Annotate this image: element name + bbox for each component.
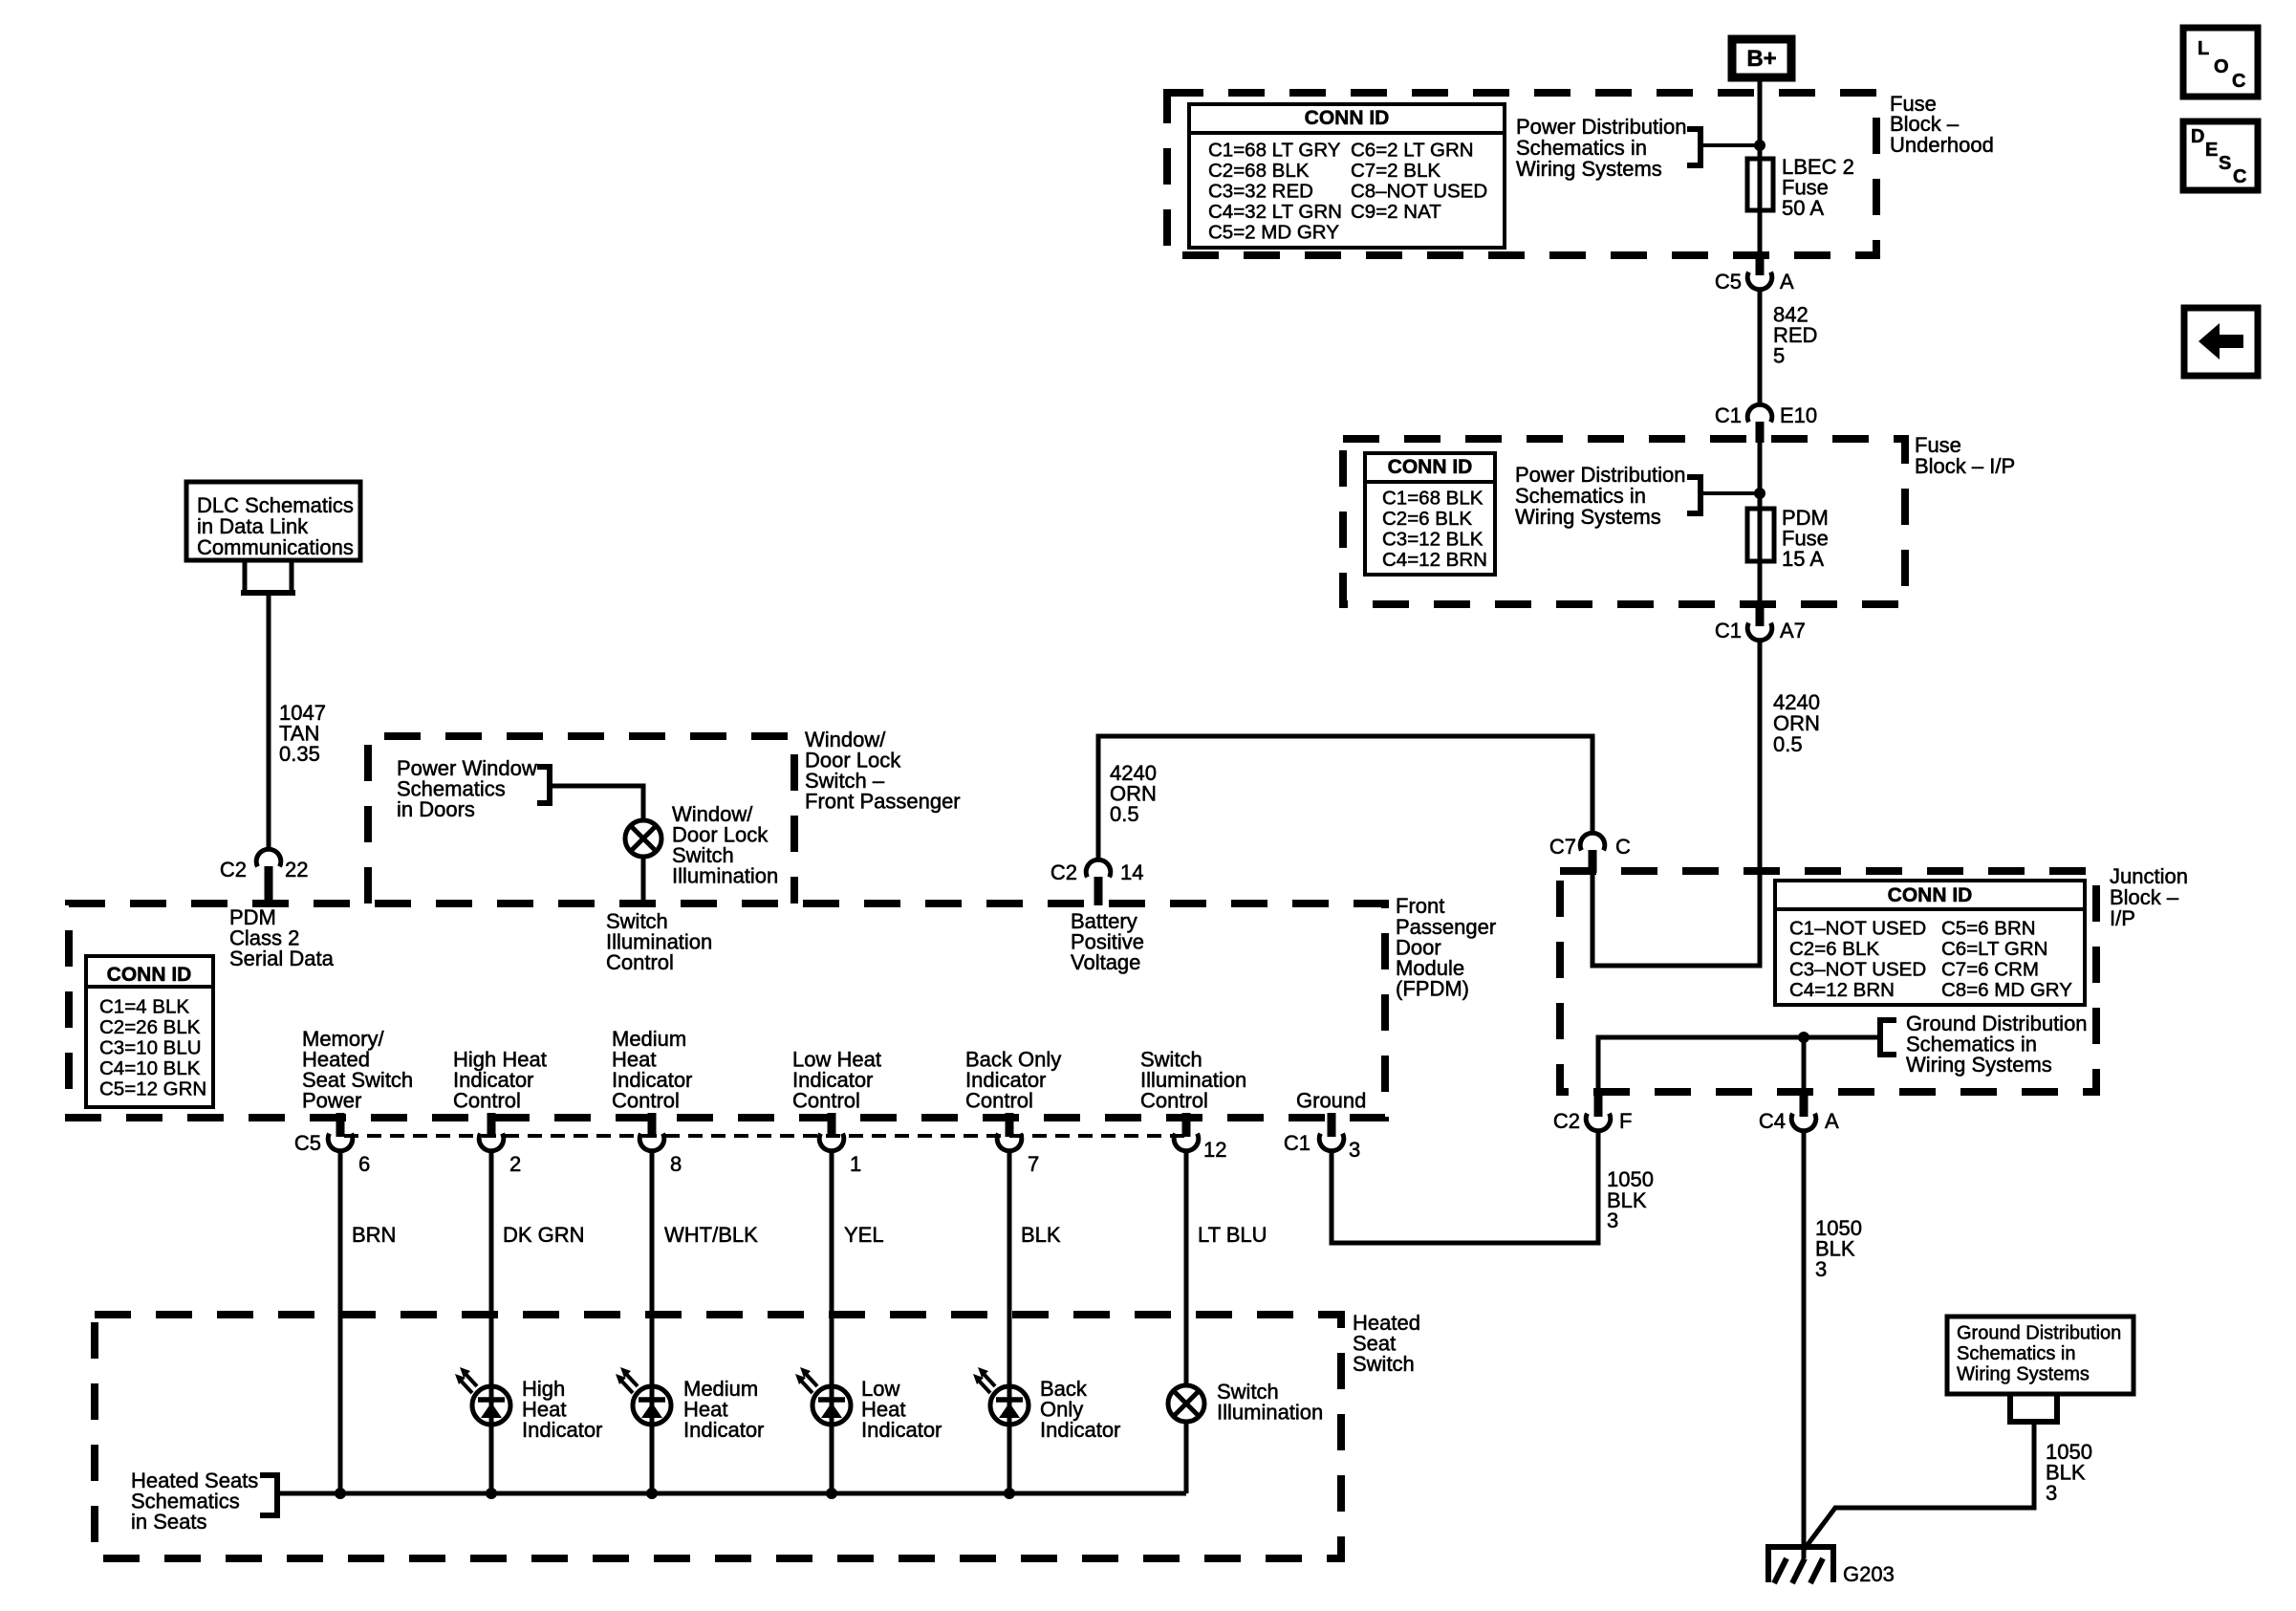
svg-text:3: 3 [1815, 1257, 1827, 1281]
heated seat switch dashed box [95, 1315, 1341, 1558]
svg-text:Front Passenger: Front Passenger [805, 790, 961, 814]
svg-text:C1: C1 [1284, 1131, 1310, 1155]
label Switch Illumination Control (pin 12) [1140, 1048, 1246, 1113]
connector id table (FPDM) [86, 956, 213, 1107]
svg-text:C2: C2 [220, 858, 247, 882]
wire LT BLU (pin 12 to switch illumination) [1186, 1150, 1267, 1493]
wire 1050 BLK 3 (C4/A to G203) [1804, 1131, 1862, 1558]
connector C5 pin A (fuse block underhood) [1715, 256, 1794, 294]
connector C1 pin E10 (fuse block I/P) [1715, 403, 1817, 443]
wire B+ to LBEC 2 fuse [1758, 81, 1763, 266]
label Ground [1296, 1089, 1366, 1113]
wire WHT/BLK (pin 8 to medium heat indicator) [652, 1150, 758, 1493]
svg-text:I/P: I/P [2110, 906, 2135, 930]
svg-text:E10: E10 [1780, 403, 1817, 427]
LED medium heat indicator [616, 1367, 764, 1442]
svg-text:C2=6 BLK: C2=6 BLK [1382, 508, 1472, 530]
svg-text:L: L [2198, 38, 2209, 59]
bracket heated seats schematics [260, 1475, 277, 1515]
wire 1050 BLK 3 (ground distribution to G203) [1804, 1422, 2092, 1550]
label Power Distribution Schematics in Wiring Systems (I/P) [1515, 463, 1686, 529]
connector id table (junction block I/P) [1775, 881, 2085, 1005]
svg-text:A7: A7 [1780, 619, 1806, 642]
lamp window/door lock switch illumination [625, 802, 778, 888]
svg-text:Indicator: Indicator [522, 1418, 602, 1442]
svg-text:Wiring Systems: Wiring Systems [1516, 157, 1662, 181]
svg-text:0.35: 0.35 [279, 742, 320, 766]
svg-text:6: 6 [358, 1152, 370, 1176]
svg-text:Wiring Systems: Wiring Systems [1515, 505, 1661, 529]
svg-text:3: 3 [1349, 1138, 1360, 1162]
label Ground Distribution Schematics in Wiring Systems (junction block) [1906, 1012, 2088, 1077]
svg-text:C8–NOT USED: C8–NOT USED [1351, 181, 1487, 203]
junction node bus x=356 [335, 1488, 346, 1499]
svg-text:Wiring Systems: Wiring Systems [1906, 1053, 2052, 1077]
wire 1050 BLK 3 (C2/F) [1607, 1167, 1654, 1232]
wire to window/door lock switch illumination lamp [550, 786, 643, 818]
LED back only indicator [973, 1367, 1120, 1442]
svg-text:Indicator: Indicator [1040, 1418, 1120, 1442]
label PDM Class 2 Serial Data [229, 905, 335, 970]
junction node bus x=1056 [1004, 1488, 1015, 1499]
svg-text:Control: Control [606, 950, 674, 974]
label Window/Door Lock Switch - Front Passenger [805, 728, 961, 814]
wire E10 to A7 through PDM fuse [1758, 443, 1763, 617]
svg-text:BRN: BRN [352, 1223, 396, 1247]
legend box LOC [2183, 28, 2258, 97]
svg-text:C9=2 NAT: C9=2 NAT [1351, 201, 1441, 223]
fuse block underhood dashed box [1167, 93, 1876, 255]
svg-text:LT BLU: LT BLU [1198, 1223, 1267, 1247]
svg-text:C7=2 BLK: C7=2 BLK [1351, 160, 1440, 182]
svg-text:C: C [2232, 71, 2245, 92]
svg-text:WHT/BLK: WHT/BLK [664, 1223, 758, 1247]
svg-text:14: 14 [1120, 860, 1143, 884]
svg-text:A: A [1825, 1109, 1839, 1133]
connector C7 pin C (junction block) [1549, 833, 1631, 873]
svg-text:C: C [1615, 835, 1631, 859]
svg-text:F: F [1619, 1109, 1632, 1133]
label Fuse Block - Underhood [1890, 92, 1994, 157]
label High Heat Indicator Control [453, 1048, 547, 1113]
svg-text:3: 3 [1607, 1208, 1618, 1232]
svg-text:C5: C5 [1715, 270, 1742, 294]
label Fuse Block - I/P [1915, 433, 2015, 478]
power symbol B+ battery feed [1732, 39, 1791, 77]
fuse PDM 15 A [1747, 506, 1829, 571]
svg-text:YEL: YEL [844, 1223, 884, 1247]
svg-text:DK GRN: DK GRN [503, 1223, 585, 1247]
wire battery feed branch to FPDM [1098, 736, 1592, 860]
ground G203 [1765, 1547, 1895, 1586]
bracket to power distribution (underhood) [1687, 129, 1760, 165]
svg-text:Communications: Communications [197, 535, 354, 559]
svg-text:2: 2 [509, 1152, 521, 1176]
front passenger door module dashed box [69, 903, 1385, 1118]
connector C1 pin A7 (fuse block I/P) [1715, 600, 1806, 642]
svg-text:22: 22 [285, 858, 308, 882]
legend box DESC [2183, 121, 2258, 190]
svg-text:Voltage: Voltage [1071, 950, 1140, 974]
svg-text:Control: Control [792, 1089, 860, 1113]
junction node ground bus [1798, 1032, 1809, 1043]
fuse block I/P dashed box [1343, 439, 1905, 604]
connector pin 1 (low heat indicator control) [819, 1113, 861, 1176]
svg-text:Illumination: Illumination [1217, 1401, 1323, 1425]
svg-text:C3–NOT USED: C3–NOT USED [1789, 959, 1926, 981]
wire DK GRN (pin 2 to high heat indicator) [491, 1150, 585, 1493]
heated seats bus wire [277, 1491, 1186, 1496]
svg-text:C3=32 RED: C3=32 RED [1208, 181, 1313, 203]
label Power Distribution Schematics in Wiring Systems (underhood) [1516, 115, 1687, 181]
wire ground bus to C4/A [1802, 1037, 1807, 1090]
connector id table (fuse block I/P) [1365, 453, 1495, 575]
svg-text:C1: C1 [1715, 619, 1742, 642]
junction node bus x=514 [486, 1488, 497, 1499]
svg-text:BLK: BLK [1021, 1223, 1061, 1247]
svg-text:CONN ID: CONN ID [1388, 456, 1473, 478]
module box DLC Schematics in Data Link Communications [186, 482, 360, 560]
svg-text:50 A: 50 A [1782, 196, 1824, 220]
wire BRN (pin 6 to heated seats bus) [340, 1150, 396, 1493]
svg-text:Indicator: Indicator [683, 1418, 764, 1442]
wire lamp to switch illumination control [641, 857, 646, 903]
LED low heat indicator [795, 1367, 942, 1442]
connector pin 7 (back only indicator control) [997, 1113, 1039, 1176]
svg-text:Schematics in: Schematics in [1957, 1343, 2076, 1364]
svg-text:in Seats: in Seats [131, 1510, 207, 1534]
svg-text:C1=68 LT GRY: C1=68 LT GRY [1208, 140, 1341, 162]
lamp switch illumination [1168, 1380, 1323, 1425]
label Memory/Heated Seat Switch Power [302, 1027, 413, 1113]
svg-text:C5=12 GRN: C5=12 GRN [99, 1078, 206, 1100]
svg-text:C: C [2233, 166, 2246, 187]
svg-text:C5: C5 [294, 1131, 321, 1155]
svg-text:CONN ID: CONN ID [1888, 884, 1973, 906]
connector C2 pin 14 (FPDM battery positive voltage) [1051, 860, 1144, 905]
label Back Only Indicator Control [965, 1048, 1061, 1113]
box Ground Distribution Schematics in Wiring Systems [1947, 1317, 2134, 1394]
svg-text:A: A [1780, 270, 1794, 294]
svg-text:S: S [2219, 153, 2231, 174]
svg-text:C7=6 CRM: C7=6 CRM [1941, 959, 2039, 981]
bracket below DLC box [241, 560, 295, 593]
svg-text:C2=26 BLK: C2=26 BLK [99, 1016, 201, 1038]
svg-text:C4=10 BLK: C4=10 BLK [99, 1057, 201, 1079]
svg-text:in Doors: in Doors [397, 797, 475, 821]
svg-text:8: 8 [670, 1152, 682, 1176]
svg-text:G203: G203 [1843, 1562, 1895, 1586]
label Battery Positive Voltage [1071, 909, 1144, 974]
svg-text:C2: C2 [1553, 1109, 1580, 1133]
connector C5 pin 6 (memory/heated seat switch power) [294, 1113, 370, 1176]
svg-text:C6=LT GRN: C6=LT GRN [1941, 938, 2047, 960]
svg-text:C5=6 BRN: C5=6 BRN [1941, 918, 2036, 940]
junction block I/P dashed box [1560, 871, 2096, 1092]
svg-text:Switch: Switch [1353, 1352, 1415, 1376]
dotted connector line C5 (heated seat switch) [344, 1134, 1186, 1138]
svg-text:Block – I/P: Block – I/P [1915, 454, 2015, 478]
junction node at PDM fuse [1754, 488, 1765, 499]
connector pin 8 (medium heat indicator control) [639, 1113, 682, 1176]
bracket to power distribution (I/P) [1687, 477, 1760, 513]
label Low Heat Indicator Control [792, 1048, 881, 1113]
svg-text:Control: Control [612, 1089, 680, 1113]
label Heated Seat Switch [1353, 1311, 1420, 1376]
wire 1047 TAN 0.35 [269, 595, 326, 850]
svg-text:Control: Control [965, 1089, 1033, 1113]
svg-text:C4=12 BRN: C4=12 BRN [1382, 549, 1487, 571]
wire BLK (pin 7 to back only indicator) [1009, 1150, 1061, 1493]
svg-text:5: 5 [1773, 344, 1785, 368]
svg-text:Control: Control [453, 1089, 521, 1113]
svg-text:Serial Data: Serial Data [229, 947, 335, 970]
junction node bus x=682 [646, 1488, 658, 1499]
svg-text:C1=4 BLK: C1=4 BLK [99, 996, 189, 1018]
svg-text:Ground Distribution: Ground Distribution [1957, 1323, 2121, 1344]
svg-text:C4: C4 [1759, 1109, 1786, 1133]
svg-text:CONN ID: CONN ID [107, 964, 192, 986]
LED high heat indicator [455, 1367, 602, 1442]
svg-text:0.5: 0.5 [1773, 732, 1803, 756]
connector id table (fuse block underhood) [1189, 104, 1505, 248]
fuse LBEC 2 50 A [1747, 155, 1854, 220]
svg-text:Ground: Ground [1296, 1089, 1366, 1113]
legend box back arrow [2184, 308, 2258, 376]
svg-text:12: 12 [1203, 1138, 1226, 1162]
svg-text:E: E [2205, 140, 2218, 161]
junction node bus x=870 [826, 1488, 837, 1499]
bracket to ground distribution (junction block) [1880, 1020, 1896, 1055]
ground bus wire inside junction block [1598, 1037, 1880, 1090]
svg-text:C2=6 BLK: C2=6 BLK [1789, 938, 1879, 960]
label Heated Seats Schematics in Seats [131, 1469, 258, 1534]
svg-text:O: O [2214, 56, 2229, 77]
bracket below ground distribution box [2007, 1394, 2060, 1422]
label Switch Illumination Control (FPDM pin) [606, 909, 712, 974]
connector C2 pin F (junction block) [1553, 1088, 1633, 1133]
svg-text:3: 3 [2046, 1481, 2057, 1505]
wire 4240 ORN 0.5 (from A7) [1592, 639, 1820, 966]
svg-text:15 A: 15 A [1782, 547, 1824, 571]
svg-text:C8=6 MD GRY: C8=6 MD GRY [1941, 979, 2072, 1001]
connector C1 pin 3 (ground) [1284, 1113, 1360, 1162]
svg-text:Illumination: Illumination [672, 864, 778, 888]
svg-text:C2: C2 [1051, 860, 1077, 884]
svg-text:B+: B+ [1746, 46, 1776, 72]
svg-text:C1–NOT USED: C1–NOT USED [1789, 918, 1926, 940]
connector pin 12 (switch illumination control) [1174, 1113, 1226, 1162]
svg-text:Wiring Systems: Wiring Systems [1957, 1364, 2090, 1385]
svg-text:C4=12 BRN: C4=12 BRN [1789, 979, 1895, 1001]
svg-text:C3=10 BLU: C3=10 BLU [99, 1037, 202, 1059]
svg-text:C1=68 BLK: C1=68 BLK [1382, 488, 1484, 510]
svg-text:(FPDM): (FPDM) [1396, 977, 1469, 1001]
svg-text:0.5: 0.5 [1110, 802, 1139, 826]
junction node at LBEC 2 fuse [1754, 140, 1765, 151]
label Front Passenger Door Module (FPDM) [1396, 894, 1496, 1001]
window/door lock switch dashed box [368, 736, 794, 903]
svg-text:CONN ID: CONN ID [1305, 107, 1390, 129]
connector C2 pin 22 (FPDM class 2 serial data) [220, 849, 309, 905]
svg-text:C7: C7 [1549, 835, 1576, 859]
label Power Window Schematics in Doors [397, 756, 537, 821]
label Junction Block - I/P [2110, 864, 2188, 930]
connector pin 2 (high heat indicator control) [479, 1113, 521, 1176]
svg-text:1: 1 [850, 1152, 861, 1176]
label Medium Heat Indicator Control [612, 1027, 692, 1113]
svg-text:C1: C1 [1715, 403, 1742, 427]
svg-text:D: D [2191, 126, 2204, 147]
svg-text:Power: Power [302, 1089, 361, 1113]
svg-text:C6=2 LT GRN: C6=2 LT GRN [1351, 140, 1474, 162]
wire 842 RED 5 [1760, 290, 1817, 405]
svg-text:Indicator: Indicator [861, 1418, 942, 1442]
svg-text:7: 7 [1028, 1152, 1039, 1176]
wire YEL (pin 1 to low heat indicator) [832, 1150, 884, 1493]
bracket to power window schematics [537, 767, 550, 803]
svg-text:Underhood: Underhood [1890, 133, 1994, 157]
wire ground pin 3 to junction block C2/F [1332, 1131, 1598, 1243]
connector C4 pin A (junction block) [1759, 1088, 1839, 1133]
svg-text:C3=12 BLK: C3=12 BLK [1382, 529, 1484, 551]
svg-text:C4=32 LT GRN: C4=32 LT GRN [1208, 201, 1342, 223]
svg-text:Control: Control [1140, 1089, 1208, 1113]
svg-text:C2=68 BLK: C2=68 BLK [1208, 160, 1310, 182]
svg-text:C5=2 MD GRY: C5=2 MD GRY [1208, 222, 1339, 244]
